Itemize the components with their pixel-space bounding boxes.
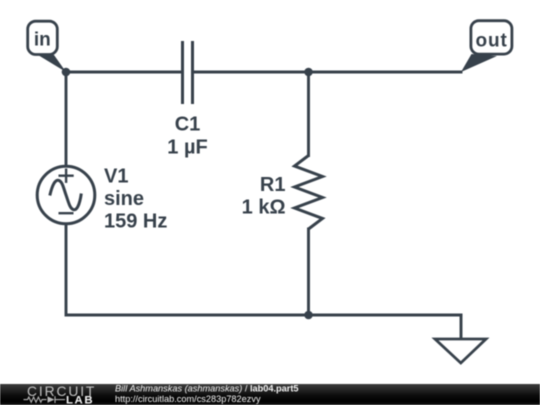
CircuitLab logo squiggle + diode bbox=[24, 396, 66, 403]
junction dot at R1 top bbox=[304, 68, 313, 77]
wire R1 top bbox=[307, 72, 310, 156]
svg-text:C1: C1 bbox=[175, 114, 201, 136]
svg-text:sine: sine bbox=[104, 188, 144, 210]
wire V1 top (in node down to V1) bbox=[65, 72, 68, 167]
wire ground lead bbox=[460, 315, 463, 339]
svg-text:R1: R1 bbox=[260, 174, 286, 196]
capacitor C1 bbox=[183, 41, 193, 104]
svg-text:http://circuitlab.com/cs283p78: http://circuitlab.com/cs283p782ezvy bbox=[115, 394, 261, 404]
resistor R1 bbox=[295, 156, 323, 230]
wire R1 bottom bbox=[307, 229, 310, 315]
node out flag bbox=[471, 21, 512, 54]
svg-text:Bill Ashmanskas (ashmanskas) /: Bill Ashmanskas (ashmanskas) / lab04.par… bbox=[115, 384, 299, 394]
svg-text:1 kΩ: 1 kΩ bbox=[242, 197, 286, 219]
wire V1 bottom + bottom rail bbox=[66, 224, 461, 316]
V1 plus sign bbox=[59, 169, 74, 183]
node in flag tail bbox=[38, 55, 66, 72]
junction dot at in node bbox=[62, 68, 71, 77]
node in flag bbox=[28, 21, 58, 54]
junction dot at R1 bottom bbox=[304, 311, 313, 320]
V1 minus sign bbox=[59, 212, 74, 214]
svg-text:LAB: LAB bbox=[66, 395, 94, 405]
voltage source V1 bbox=[37, 166, 95, 224]
ground bbox=[435, 339, 486, 363]
node out flag tail bbox=[461, 54, 497, 72]
svg-text:in: in bbox=[34, 30, 51, 51]
svg-text:159 Hz: 159 Hz bbox=[104, 211, 167, 233]
wire top-left (in node to C1 left plate) bbox=[66, 71, 181, 74]
svg-text:out: out bbox=[475, 31, 507, 52]
wire top-right (C1 right plate to out anchor) bbox=[194, 71, 461, 74]
svg-text:V1: V1 bbox=[104, 166, 128, 188]
svg-text:1 µF: 1 µF bbox=[167, 137, 207, 159]
